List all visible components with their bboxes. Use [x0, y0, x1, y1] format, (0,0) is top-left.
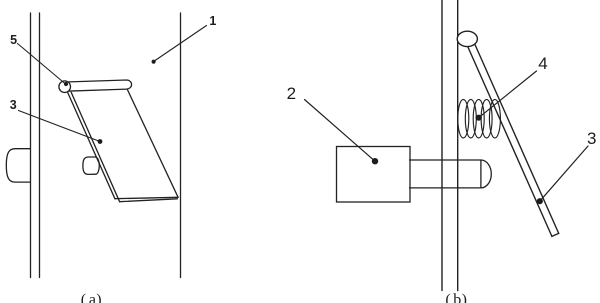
svg-text:2: 2: [287, 84, 296, 103]
svg-text:): ): [96, 292, 101, 303]
svg-text:3: 3: [10, 98, 17, 112]
svg-text:5: 5: [10, 33, 17, 47]
svg-text:4: 4: [538, 54, 547, 73]
svg-text:a: a: [89, 292, 96, 303]
svg-text:3: 3: [587, 129, 596, 148]
svg-text:b: b: [453, 292, 461, 303]
svg-text:(: (: [445, 292, 450, 303]
svg-text:): ): [462, 292, 467, 303]
svg-text:(: (: [81, 292, 86, 303]
svg-text:1: 1: [209, 14, 216, 28]
